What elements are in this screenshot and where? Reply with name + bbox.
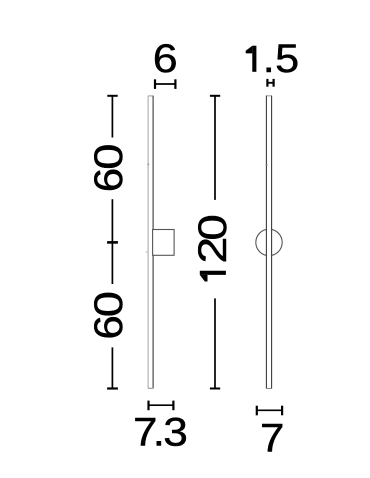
svg-text:0: 0 (191, 214, 235, 240)
dimension label 60 (upper) (87, 144, 131, 193)
svg-text:7: 7 (260, 417, 284, 461)
svg-text:0: 0 (87, 144, 131, 170)
dimension label 7.3 (133, 411, 188, 455)
svg-text:6: 6 (153, 37, 178, 81)
seam mark on left bar (147, 164, 149, 166)
svg-text:3: 3 (163, 411, 188, 455)
lamp front-view bar (right profile) (266, 96, 272, 389)
svg-text:6: 6 (87, 168, 131, 192)
dimension "7" horizontal line (bottom right) (257, 406, 282, 416)
dimension label 1.5 (246, 37, 300, 81)
svg-text:5: 5 (275, 37, 299, 81)
svg-text:0: 0 (87, 291, 131, 317)
vertical dimension line 60/60 (left) (107, 96, 118, 389)
lamp side-view bar (left profile) (148, 96, 153, 389)
svg-text:6: 6 (87, 315, 131, 339)
dimension "6" horizontal line (top left) (155, 79, 175, 89)
dimension label 120 (191, 214, 235, 281)
dimension label 60 (lower) (87, 291, 131, 340)
vertical dimension line 120 (middle) (210, 96, 220, 389)
svg-text:.: . (263, 37, 275, 81)
dimension "7.3" horizontal line (bottom left) (149, 401, 174, 411)
dimension "1.5" horizontal line (top right) (267, 79, 273, 87)
wall bracket circle (front view) (256, 229, 282, 255)
wall bracket square (side view) (153, 230, 175, 256)
seam mark on right bar (266, 164, 268, 166)
seam tick left of bar (146, 252, 149, 253)
